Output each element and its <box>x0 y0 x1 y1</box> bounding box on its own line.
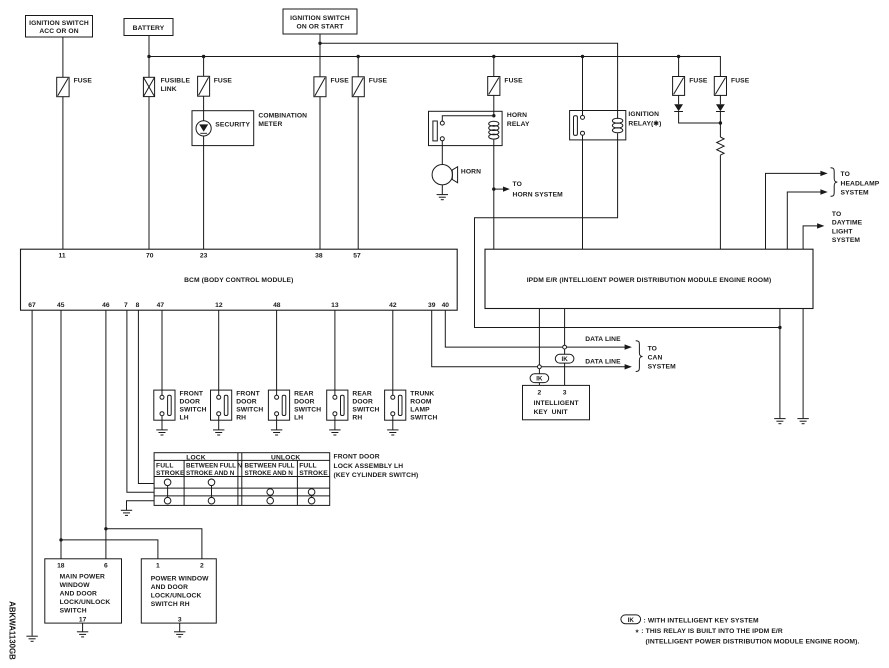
svg-text:HEADLAMP: HEADLAMP <box>841 180 880 187</box>
svg-text:REAR: REAR <box>294 390 313 397</box>
svg-text:SYSTEM: SYSTEM <box>841 190 870 197</box>
diode D2 <box>716 104 725 111</box>
wire BCM pin 13 to rear door switch RH <box>334 310 336 395</box>
svg-text:MAIN POWER: MAIN POWER <box>60 573 105 580</box>
svg-text:STROKE AND N: STROKE AND N <box>186 470 235 477</box>
svg-text:UNLOCK: UNLOCK <box>271 455 300 462</box>
wire IPDM to ground 1 <box>779 309 781 419</box>
svg-text:IK: IK <box>536 376 543 383</box>
ground <box>774 419 785 424</box>
svg-text:IGNITION SWITCH: IGNITION SWITCH <box>290 15 350 22</box>
ground <box>174 632 185 637</box>
svg-text:DATA LINE: DATA LINE <box>585 336 621 343</box>
svg-text:SWITCH: SWITCH <box>180 406 207 413</box>
svg-text:LAMP: LAMP <box>410 406 430 413</box>
svg-text:METER: METER <box>258 121 282 128</box>
svg-text:42: 42 <box>389 302 397 309</box>
svg-text:TO: TO <box>841 171 850 178</box>
wire F7 to diode D2 <box>719 95 721 104</box>
ground <box>797 419 808 424</box>
svg-text:LOCK/UNLOCK: LOCK/UNLOCK <box>151 592 202 599</box>
wire bus to fuse F2 <box>203 57 205 77</box>
IPDM E/R U2 <box>485 249 813 308</box>
wire IPDM to ground 2 <box>802 309 804 419</box>
wire BCM pin 46 to main power window switch pin 6 <box>105 310 107 559</box>
svg-text:LH: LH <box>180 414 189 421</box>
connector junction <box>563 345 567 349</box>
ground <box>329 430 340 435</box>
IK option oval <box>530 374 549 383</box>
junction <box>147 55 150 58</box>
wire S1 to ground <box>161 416 163 430</box>
svg-text:N: N <box>237 462 242 469</box>
svg-text:2: 2 <box>538 390 542 397</box>
svg-text:SWITCH: SWITCH <box>294 406 321 413</box>
svg-text:RELAY(✱): RELAY(✱) <box>628 120 661 128</box>
legend asterisk note <box>636 628 860 645</box>
svg-text:TO: TO <box>648 345 657 352</box>
svg-text:SWITCH: SWITCH <box>60 607 87 614</box>
fuse F4 <box>352 77 387 97</box>
svg-text:17: 17 <box>79 617 87 624</box>
security indicator lamp <box>196 121 250 136</box>
fuse F1 <box>57 77 93 96</box>
svg-text:FUSE: FUSE <box>369 78 388 85</box>
svg-text:12: 12 <box>215 302 223 309</box>
svg-text:IK: IK <box>562 356 569 363</box>
wire BCM pin 8 to key cylinder switch <box>138 310 154 483</box>
svg-text:LOCK ASSEMBLY LH: LOCK ASSEMBLY LH <box>334 463 404 470</box>
svg-text:ROOM: ROOM <box>410 398 432 405</box>
wire horn to ground <box>441 185 443 195</box>
wire BCM pin 40 data line <box>445 310 625 347</box>
svg-text:39: 39 <box>428 302 436 309</box>
svg-text:70: 70 <box>146 253 154 260</box>
wire horn relay coil to IPDM <box>493 140 495 250</box>
junction <box>202 55 205 58</box>
svg-text:FUSIBLE: FUSIBLE <box>161 78 191 85</box>
svg-text:REAR: REAR <box>352 390 371 397</box>
svg-text:STROKE: STROKE <box>156 470 185 477</box>
wire IPDM to intelligent key unit pin 2 <box>538 309 540 374</box>
svg-text:STROKE AND N: STROKE AND N <box>245 470 294 477</box>
ignition switch on/start source box <box>283 9 357 34</box>
main power window and door lock/unlock switch S7 <box>45 559 122 624</box>
svg-text:TRUNK: TRUNK <box>410 390 434 397</box>
svg-text:DAYTIME: DAYTIME <box>832 220 863 227</box>
svg-text:BETWEEN FULL: BETWEEN FULL <box>245 462 295 469</box>
svg-text:DATA LINE: DATA LINE <box>585 359 621 366</box>
wire S5 to ground <box>392 416 394 430</box>
wire oval to key unit pin 3 <box>564 363 566 385</box>
svg-text:(INTELLIGENT POWER DISTRIBUTIO: (INTELLIGENT POWER DISTRIBUTION MODULE E… <box>646 639 860 646</box>
resistor R1 <box>717 137 724 155</box>
wire oval to key unit pin 2 <box>538 383 540 386</box>
wire on/start branch to ignition relay coil <box>320 43 618 118</box>
junction <box>492 187 495 190</box>
svg-text:SYSTEM: SYSTEM <box>648 363 677 370</box>
svg-text:FUSE: FUSE <box>214 77 233 84</box>
svg-text:3: 3 <box>563 390 567 397</box>
wire S7 pin 17 to ground <box>82 623 84 631</box>
trunk room lamp switch S5 <box>385 390 438 421</box>
wire F2 through security indicator to BCM pin 23 <box>203 96 205 249</box>
svg-text:SYSTEM: SYSTEM <box>832 237 861 244</box>
svg-text:KEY UNIT: KEY UNIT <box>534 409 569 416</box>
svg-text:48: 48 <box>273 302 281 309</box>
junction <box>492 55 495 58</box>
brace headlamp <box>831 168 838 197</box>
svg-text:: WITH INTELLIGENT KEY SYSTEM: : WITH INTELLIGENT KEY SYSTEM <box>644 617 759 624</box>
wire IPDM to headlamp feed 1 <box>766 173 821 249</box>
svg-text:47: 47 <box>157 302 165 309</box>
svg-text:18: 18 <box>57 562 65 569</box>
BCM U1 (body control module) <box>21 249 458 310</box>
wire F3 to BCM pin 38 <box>319 97 321 250</box>
svg-text:IPDM E/R (INTELLIGENT POWER DI: IPDM E/R (INTELLIGENT POWER DISTRIBUTION… <box>527 277 772 284</box>
to headlamp system label <box>841 171 880 197</box>
svg-text:FULL: FULL <box>299 462 317 469</box>
svg-text:FUSE: FUSE <box>74 78 93 85</box>
arrow <box>625 364 632 369</box>
front door switch LH S1 <box>154 390 207 421</box>
svg-text:IGNITION: IGNITION <box>628 111 659 118</box>
svg-text:DOOR: DOOR <box>294 398 315 405</box>
ground <box>387 430 398 435</box>
svg-text:FRONT: FRONT <box>236 390 260 397</box>
svg-text:ABKWA1130GB: ABKWA1130GB <box>7 601 16 660</box>
wire R1 to IPDM <box>719 155 721 249</box>
to horn system arrow <box>494 181 563 199</box>
svg-text:LINK: LINK <box>161 86 177 93</box>
svg-text:8: 8 <box>136 302 140 309</box>
wire S3 to ground <box>276 416 278 430</box>
svg-text:13: 13 <box>331 302 339 309</box>
svg-text:LOCK: LOCK <box>186 455 205 462</box>
svg-text:1: 1 <box>156 562 160 569</box>
svg-text:SWITCH: SWITCH <box>236 406 263 413</box>
wire F6 to diode D1 <box>678 95 680 104</box>
svg-text:WINDOW: WINDOW <box>60 582 91 589</box>
wire horn relay contact to horn <box>441 141 443 165</box>
svg-text:46: 46 <box>102 302 110 309</box>
wire bus to fuse F4 <box>357 57 359 77</box>
svg-text:IGNITION SWITCH: IGNITION SWITCH <box>29 20 89 27</box>
wire BCM pin 45 to main power window switch pin 18 <box>60 310 62 559</box>
svg-text:ON OR START: ON OR START <box>297 23 345 30</box>
rear door switch LH S3 <box>268 390 321 421</box>
svg-text:TO: TO <box>832 211 841 218</box>
fusible link FL <box>143 77 190 96</box>
key cylinder lock between contact <box>208 479 215 504</box>
svg-text:FUSE: FUSE <box>731 77 750 84</box>
wire BCM pin 7 to key cylinder switch <box>127 310 154 492</box>
svg-text:38: 38 <box>315 253 323 260</box>
rear door switch RH S4 <box>327 390 380 421</box>
fuse F7 <box>714 77 749 96</box>
wire BCM pin 67 to ground <box>31 310 33 636</box>
arrow <box>820 171 827 176</box>
arrow <box>820 189 827 194</box>
svg-text:SWITCH RH: SWITCH RH <box>151 601 190 608</box>
ground <box>271 430 282 435</box>
svg-text:COMBINATION: COMBINATION <box>258 113 307 120</box>
junction <box>719 121 722 124</box>
svg-text:67: 67 <box>28 302 36 309</box>
ground <box>77 632 88 637</box>
junction <box>581 55 584 58</box>
ignition switch acc source box <box>26 16 93 38</box>
svg-text:AND DOOR: AND DOOR <box>151 584 188 591</box>
wire D1 to resistor node <box>679 112 721 124</box>
wire F4 to BCM pin 57 <box>357 97 359 250</box>
wire acc to fuse F1 <box>62 37 64 77</box>
wire F1 to BCM pin 11 <box>62 97 64 250</box>
key cylinder switch table S6 <box>154 453 330 506</box>
wire S8 pin 3 to ground <box>179 623 181 631</box>
svg-text:40: 40 <box>442 302 450 309</box>
wire battery to fusible link <box>148 36 150 78</box>
wire BCM pin 42 to trunk room lamp switch <box>392 310 394 395</box>
wire IPDM to headlamp feed 2 <box>787 192 821 249</box>
to daytime light system label <box>832 211 863 244</box>
horn relay K1 <box>429 111 530 145</box>
svg-text:BETWEEN FULL: BETWEEN FULL <box>186 462 236 469</box>
svg-text:: THIS RELAY IS BUILT INTO THE: : THIS RELAY IS BUILT INTO THE IPDM E/R <box>641 628 783 635</box>
svg-text:HORN SYSTEM: HORN SYSTEM <box>513 192 564 199</box>
ground <box>26 636 37 641</box>
wire S4 to ground <box>334 416 336 430</box>
svg-text:LOCK/UNLOCK: LOCK/UNLOCK <box>60 599 111 606</box>
svg-text:IK: IK <box>628 617 635 624</box>
wire key cylinder common to ground <box>127 501 155 510</box>
svg-text:11: 11 <box>59 253 66 260</box>
svg-text:FRONT: FRONT <box>180 390 204 397</box>
wire IPDM to daytime light feed <box>803 226 818 249</box>
legend IK oval <box>621 615 641 624</box>
svg-text:STROKE: STROKE <box>299 470 328 477</box>
ground <box>437 195 448 200</box>
junction <box>104 527 107 530</box>
svg-text:3: 3 <box>178 617 182 624</box>
fuse F3 <box>314 77 349 97</box>
svg-text:2: 2 <box>200 562 204 569</box>
arrow <box>625 344 632 349</box>
svg-text:DOOR: DOOR <box>180 398 201 405</box>
key cylinder unlock full stroke contact <box>308 489 315 504</box>
key cylinder lock full stroke contact <box>164 479 171 504</box>
junction <box>492 114 495 117</box>
svg-text:LIGHT: LIGHT <box>832 228 853 235</box>
to CAN system label <box>648 345 677 370</box>
svg-text:FULL: FULL <box>156 462 174 469</box>
power window and door lock/unlock switch RH S8 <box>141 559 216 624</box>
svg-text:SWITCH: SWITCH <box>410 414 437 421</box>
wire fusible link to BCM pin 70 <box>148 97 150 250</box>
svg-text:HORN: HORN <box>507 112 527 119</box>
key cylinder switch label <box>334 454 419 480</box>
ignition relay K2 <box>570 111 662 140</box>
junction <box>357 55 360 58</box>
horn H1 <box>432 165 481 185</box>
svg-text:RH: RH <box>236 414 246 421</box>
svg-text:LH: LH <box>294 414 303 421</box>
front door switch RH S2 <box>211 390 264 421</box>
junction <box>778 326 781 329</box>
wire bus to ignition relay contact <box>582 57 584 116</box>
wire BCM pin 12 to front door switch RH <box>218 310 220 395</box>
svg-text:TO: TO <box>513 181 522 188</box>
ground <box>121 510 132 515</box>
svg-text:SECURITY: SECURITY <box>215 122 250 129</box>
svg-text:(KEY CYLINDER SWITCH): (KEY CYLINDER SWITCH) <box>334 472 419 479</box>
svg-text:6: 6 <box>104 562 108 569</box>
svg-text:57: 57 <box>353 253 361 260</box>
fuse F2 <box>198 76 233 96</box>
wire on/start to fuse F3 <box>319 34 321 77</box>
intelligent key unit U3 <box>523 385 590 419</box>
svg-text:INTELLIGENT: INTELLIGENT <box>534 400 580 407</box>
svg-text:CAN: CAN <box>648 354 663 361</box>
svg-text:BCM (BODY CONTROL MODULE): BCM (BODY CONTROL MODULE) <box>184 277 293 284</box>
svg-text:FUSE: FUSE <box>689 77 708 84</box>
svg-text:FUSE: FUSE <box>331 78 350 85</box>
wire BCM pin 48 to rear door switch LH <box>276 310 278 395</box>
wire bus to fuse F6 <box>678 57 680 77</box>
fuse F6 <box>673 77 708 96</box>
svg-text:45: 45 <box>57 302 65 309</box>
svg-text:DOOR: DOOR <box>236 398 257 405</box>
wire ignition relay contact to IPDM <box>582 135 584 249</box>
fuse F5 <box>488 77 523 96</box>
svg-text:FUSE: FUSE <box>504 77 523 84</box>
svg-text:ACC OR ON: ACC OR ON <box>39 28 78 35</box>
junction <box>677 55 680 58</box>
ground <box>213 430 224 435</box>
battery supply bus <box>149 57 720 77</box>
wire bus to fuse F5 <box>493 57 495 77</box>
wire ignition relay coil return to ground node <box>475 133 780 327</box>
wire branch to power window switch RH pin 1 <box>61 540 158 559</box>
svg-text:SWITCH: SWITCH <box>352 406 379 413</box>
wire D2 to resistor R1 <box>719 112 721 138</box>
wire branch to power window switch RH pin 2 <box>106 529 202 559</box>
svg-text:POWER WINDOW: POWER WINDOW <box>151 575 209 582</box>
wire IPDM to intelligent key unit pin 3 <box>564 309 566 355</box>
connector junction <box>538 365 542 369</box>
svg-text:HORN: HORN <box>461 169 481 176</box>
junction <box>318 42 321 45</box>
svg-text:7: 7 <box>124 302 128 309</box>
arrow <box>817 223 824 228</box>
svg-text:RELAY: RELAY <box>507 121 530 128</box>
svg-text:DOOR: DOOR <box>352 398 373 405</box>
ground <box>156 430 167 435</box>
combination meter box <box>192 111 307 146</box>
wire F5 to horn relay <box>493 95 495 115</box>
svg-text:AND DOOR: AND DOOR <box>60 590 97 597</box>
battery B1 <box>124 19 173 36</box>
svg-text:RH: RH <box>352 414 362 421</box>
brace CAN <box>636 341 643 372</box>
svg-text:FRONT DOOR: FRONT DOOR <box>334 454 380 461</box>
wire S2 to ground <box>218 416 220 430</box>
IK option oval <box>555 354 574 363</box>
junction <box>59 538 62 541</box>
key cylinder unlock between contact <box>267 489 274 504</box>
svg-text:BATTERY: BATTERY <box>133 25 165 32</box>
wire BCM pin 47 to front door switch LH <box>161 310 163 395</box>
wire BCM pin 39 data line <box>432 310 626 367</box>
svg-text:23: 23 <box>200 253 208 260</box>
diode D1 <box>674 104 683 111</box>
